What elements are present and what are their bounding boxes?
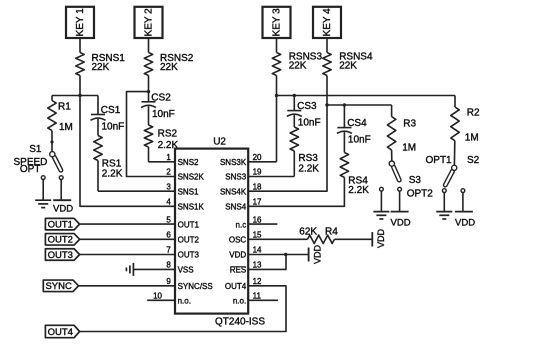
wire S3 ground lead [380,191,382,211]
svg-text:4: 4 [166,198,171,207]
svg-text:OPT2: OPT2 [407,188,434,199]
wire pin 11 stub (n.o.) [248,299,278,301]
svg-text:OUT4: OUT4 [48,327,73,338]
svg-text:1: 1 [166,153,171,162]
svg-text:22K: 22K [339,60,357,71]
svg-text:7: 7 [166,246,171,255]
node KEY4 junction [325,103,328,106]
resistor RS2 2.2K [144,106,178,162]
wire KEY1 line down to pin 4 (SNS1K) [80,96,175,207]
wire OUT4 pin 12 wire [80,286,286,332]
pin 15 OSC label [229,231,262,245]
resistor RSNS2 22K [144,53,193,76]
wire OSC pin 15 to R4 [248,238,307,240]
pin 10 n.o. label [153,292,191,306]
key pad KEY 3 [263,7,291,38]
svg-text:3: 3 [166,182,171,191]
svg-text:2.2K: 2.2K [298,163,319,174]
svg-text:QT240-ISS: QT240-ISS [215,317,265,328]
svg-text:2.2K: 2.2K [348,185,369,196]
wire KEY4 line down to pin 18 (SNS4K) [248,105,327,191]
pin 20 SNS3K label [220,153,262,167]
svg-text:SNS3K: SNS3K [220,158,247,167]
svg-text:OUT1: OUT1 [178,220,200,229]
svg-text:SNS4: SNS4 [225,203,246,212]
svg-text:n.o.: n.o. [233,297,246,306]
svg-text:CS3: CS3 [297,101,317,112]
wire OUT1 to pin 5 [80,223,175,225]
svg-text:OSC: OSC [229,236,247,245]
wire SNS1 pin 3 wire [98,190,175,192]
wire OUT2 to pin 6 [80,238,175,240]
wire KEY3 node down to pin 20 (SNS3K) [276,76,278,162]
wire KEY 4 lead [326,38,328,53]
wire KEY2 node down to branch [148,76,150,92]
node R1-S1 junction [50,140,53,143]
svg-text:10nF: 10nF [102,122,125,133]
pin 16 n.c label [236,215,263,229]
svg-text:1M: 1M [402,143,416,154]
wire S3 VDD lead [399,191,401,211]
pin 17 SNS4 label [225,198,262,212]
svg-text:OUT3: OUT3 [178,251,200,260]
switch S2 OPT1 [426,155,480,193]
pin 2 SNS2K label [166,168,204,182]
svg-text:R2: R2 [467,107,480,118]
resistor R2 1M [451,96,480,166]
svg-text:62K: 62K [299,226,317,237]
node KEY2 junction [147,90,150,93]
svg-text:KEY 4: KEY 4 [322,8,333,37]
resistor R4 62K [299,226,338,243]
ground S2 [436,212,452,219]
wire KEY 3 lead [276,38,278,53]
switch S3 OPT2 [380,161,434,199]
svg-text:VDD: VDD [455,218,475,229]
pin 11 n.o. label [233,292,262,306]
wire SNS4 pin 17 wire [248,177,344,206]
svg-text:S3: S3 [409,175,422,186]
svg-text:R1: R1 [58,102,71,113]
power VDD S1 [53,200,73,214]
wire S1 ground lead [42,180,44,200]
svg-text:VSS: VSS [178,266,194,275]
wire SYNC to pin 9 [79,285,176,287]
pin 12 OUT4 label [225,277,262,291]
svg-text:SNS1K: SNS1K [178,203,205,212]
resistor RSNS4 22K [323,51,373,75]
wire KEY3 rail (KEY3 - CS3 - R2) [277,95,456,97]
svg-text:1M: 1M [59,122,73,133]
svg-text:OUT3: OUT3 [48,250,73,261]
wire KEY4 node down to rail 2 [326,76,328,106]
svg-text:12: 12 [253,277,262,286]
svg-text:SYNC: SYNC [45,281,72,292]
wire KEY 1 lead [79,38,81,53]
ground VSS pin 8 [126,263,133,276]
svg-text:OUT1: OUT1 [48,220,73,231]
svg-text:R4: R4 [325,226,338,237]
pin 14 VDD label [229,246,262,260]
power VDD at R4 [372,228,386,248]
svg-text:VDD: VDD [53,203,73,214]
svg-text:SNS2: SNS2 [178,158,199,167]
svg-text:SNS4K: SNS4K [220,187,247,196]
svg-text:18: 18 [253,182,262,191]
svg-text:n.c: n.c [236,220,247,229]
key pad KEY 4 [313,7,341,38]
svg-text:10nF: 10nF [298,118,321,129]
svg-text:20: 20 [253,153,262,162]
capacitor CS1 10nF [91,96,125,133]
pin 13 RES label [230,261,262,275]
svg-text:SNS2K: SNS2K [178,173,205,182]
svg-text:OUT2: OUT2 [178,236,200,245]
pin 1 SNS2 label [166,153,199,167]
wire SNS3 pin 19 wire [248,176,294,178]
resistor RSNS1 22K [76,53,125,76]
key pad KEY 1 [66,7,94,38]
svg-text:CS1: CS1 [101,105,121,116]
resistor RS3 2.2K [290,115,319,176]
svg-text:CS2: CS2 [151,92,171,103]
wire VSS pin 8 [133,268,175,270]
svg-text:VDD: VDD [313,244,323,264]
wire KEY 2 lead [148,38,150,53]
svg-text:14: 14 [253,246,262,255]
wire KEY2 branch to SNS2K column [127,92,176,177]
wire SNS3K pin 20 wire [248,161,276,163]
pin 8 VSS label [166,261,193,275]
svg-text:13: 13 [253,261,262,270]
svg-text:U2: U2 [213,137,226,148]
wire KEY1 rail (R1 - KEY1 - CS1) [52,95,98,97]
svg-text:1M: 1M [465,132,479,143]
svg-text:11: 11 [253,292,262,301]
net label OUT1 [45,218,79,230]
wire S2 VDD lead [462,193,464,212]
net label OUT2 [45,234,79,246]
svg-text:6: 6 [166,231,171,240]
svg-text:SNS3: SNS3 [225,173,246,182]
ground S3 [373,212,389,219]
pin 19 SNS3 label [225,168,262,182]
wire RES pin 13 tied to VDD [248,255,286,270]
wire S2 ground lead [443,193,445,212]
ground S1 [35,200,51,207]
svg-text:22K: 22K [289,60,307,71]
net label OUT4 [45,325,79,338]
svg-text:2.2K: 2.2K [102,169,123,180]
wire VDD pin 14 wire [248,254,308,256]
resistor RSNS3 22K [272,51,322,75]
resistor R3 1M [387,105,416,161]
svg-text:16: 16 [253,215,262,224]
net label SYNC [43,280,78,292]
resistor R1 1M [48,96,73,152]
svg-text:RS2: RS2 [158,128,178,139]
svg-text:22K: 22K [160,62,178,73]
svg-text:2: 2 [166,168,171,177]
node CS4 junction [343,103,346,106]
node CS3 junction [293,94,296,97]
svg-text:VDD: VDD [376,228,386,248]
resistor RS1 2.2K [94,119,123,191]
svg-text:VDD: VDD [391,218,411,229]
wire S1 VDD lead [60,180,62,200]
svg-text:OUT2: OUT2 [48,235,73,246]
node KEY1 junction [78,94,81,97]
wire pin 10 stub (n.o.) [147,299,175,301]
svg-text:19: 19 [253,168,262,177]
node KEY3 junction [275,94,278,97]
resistor RS4 2.2K [340,132,369,196]
capacitor CS4 10nF [337,105,371,146]
wire R4 to VDD [334,238,371,240]
pin 18 SNS4K label [220,182,262,196]
net label OUT3 [45,249,79,261]
svg-text:8: 8 [166,261,171,270]
svg-text:17: 17 [253,198,262,207]
svg-text:KEY 1: KEY 1 [75,8,86,37]
svg-text:n.o.: n.o. [178,297,191,306]
svg-text:15: 15 [253,231,262,240]
svg-text:5: 5 [166,215,171,224]
svg-text:10nF: 10nF [348,135,371,146]
svg-text:9: 9 [166,277,171,286]
pin 4 SNS1K label [166,198,204,212]
capacitor CS2 10nF [141,92,175,120]
pin 5 OUT1 label [166,215,199,229]
pin 7 OUT3 label [166,246,199,260]
svg-text:OUT4: OUT4 [225,282,247,291]
pin 3 SNS1 label [166,182,199,196]
svg-text:OPT: OPT [20,164,41,175]
svg-text:R3: R3 [403,119,416,130]
wire pin 16 stub (n.c) [248,223,277,225]
svg-text:SNS1: SNS1 [178,187,199,196]
wire KEY4 rail (KEY4 - CS4 - R3) [327,104,392,106]
svg-text:KEY 2: KEY 2 [144,8,155,37]
svg-text:S1: S1 [29,144,42,155]
node pin13-pin14 junction [284,253,287,256]
svg-text:KEY 3: KEY 3 [272,8,283,37]
power VDD at pin 14 [309,244,323,264]
pin 9 SYNC/SS label [166,277,212,291]
svg-text:CS4: CS4 [347,118,367,129]
svg-text:VDD: VDD [229,251,246,260]
wire SNS2 pin 1 wire [149,161,176,163]
wire OUT3 to pin 7 [80,254,175,256]
pin 6 OUT2 label [166,231,199,245]
svg-text:S2: S2 [467,155,480,166]
svg-text:OPT1: OPT1 [426,155,453,166]
svg-text:SYNC/SS: SYNC/SS [178,282,213,291]
power VDD S2 [455,212,475,229]
svg-text:10nF: 10nF [152,109,175,120]
svg-text:22K: 22K [92,62,110,73]
capacitor CS3 10nF [287,96,321,129]
key pad KEY 2 [135,7,163,38]
IC U2 QT240-ISS body [175,137,265,328]
svg-text:10: 10 [153,292,162,301]
switch S1 SPEED OPT [14,144,64,180]
power VDD S3 [391,212,411,229]
wire KEY1 node down to rail [79,76,81,96]
